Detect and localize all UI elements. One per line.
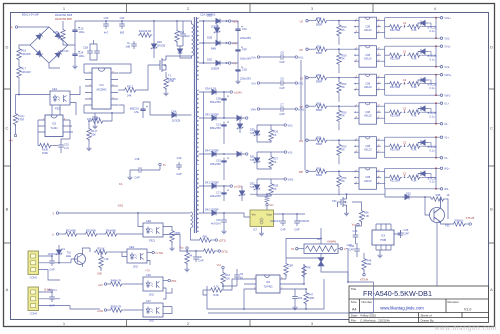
MOSFET source resistor (165, 72, 167, 76)
svg-text:CON3: CON3 (30, 276, 38, 280)
svg-text:683: 683 (120, 31, 125, 35)
winding tap link rail lower (203, 92, 205, 213)
svg-text:24D: 24D (97, 272, 102, 276)
svg-text:220u/25V: 220u/25V (240, 36, 251, 40)
svg-text:C:\Working\.. 220324b: C:\Working\.. 220324b (360, 319, 390, 323)
capacitor C32 4.7u (58, 142, 64, 150)
CON3 pin wires (39, 256, 67, 280)
resistor R19 0.25 (63, 21, 68, 45)
snubber resistor R13 (176, 21, 178, 29)
transformer primary winding (192, 24, 194, 56)
svg-text:PD1: PD1 (172, 279, 178, 283)
svg-text:R117: R117 (91, 129, 98, 133)
svg-text:C20: C20 (104, 16, 109, 20)
CE3 output network (163, 227, 172, 230)
svg-text:4.5u: 4.5u (134, 110, 140, 114)
svg-text:C1E: C1E (242, 68, 247, 72)
IC3 right pins (111, 73, 118, 105)
svg-text:CAP: CAP (198, 259, 204, 263)
svg-text:VU1+: VU1+ (444, 16, 451, 20)
svg-text:VU+: VU+ (251, 55, 257, 59)
capacitor C1B 560u/35V (221, 95, 228, 103)
diode D45 (234, 116, 244, 121)
svg-text:C9: C9 (280, 77, 284, 81)
svg-text:VV1+: VV1+ (444, 45, 451, 49)
svg-text:+GV: +GV (98, 283, 104, 287)
svg-text:180u/16V: 180u/16V (240, 56, 251, 60)
svg-text:R53/4.7K: R53/4.7K (111, 305, 122, 309)
svg-text:2N2: 2N2 (149, 319, 154, 323)
svg-text:C7: C7 (280, 103, 284, 107)
IC7 output wire (274, 213, 306, 215)
svg-text:150K: 150K (42, 151, 48, 155)
rectifier row1: diode D2C (213, 19, 223, 24)
connector CON3 (yellow) (28, 251, 39, 275)
svg-text:R12/34.1R: R12/34.1R (139, 29, 152, 33)
svg-text:TL431: TL431 (50, 126, 58, 130)
svg-text:A4: A4 (352, 308, 356, 312)
big loop wire (207, 279, 324, 309)
diode D32 (385, 189, 404, 197)
resistor R16 10K/2W (17, 47, 21, 61)
svg-text:(+)24V: (+)24V (234, 91, 242, 95)
resistor R12 (138, 33, 152, 37)
opto CE1 output wires (70, 86, 80, 115)
svg-text:+7V: +7V (232, 42, 237, 46)
svg-text:T64: T64 (332, 199, 337, 203)
svg-text:2N2: 2N2 (149, 293, 154, 297)
bridge rectifier D1A-D1D (30, 27, 68, 63)
svg-text:IC4: IC4 (381, 234, 386, 238)
svg-text:C: C (5, 126, 8, 131)
svg-text:4.3K: 4.3K (364, 214, 370, 218)
transformer secondary winding lower (197, 170, 199, 232)
bidirectional suppressor diode (320, 254, 322, 258)
svg-text:R10: R10 (225, 273, 230, 277)
svg-text:-7V: -7V (232, 62, 236, 66)
svg-text:4-May-2020: 4-May-2020 (360, 313, 376, 317)
svg-text:D4R: D4R (213, 293, 218, 297)
svg-text:IC5: IC5 (52, 122, 57, 126)
svg-text:KT5-M: KT5-M (360, 278, 368, 282)
svg-text:860C15: 860C15 (130, 107, 140, 111)
svg-text:U1+: U1+ (444, 102, 449, 106)
svg-text:T10: T10 (67, 251, 72, 255)
svg-text:TC(1): TC(1) (18, 114, 25, 118)
shunt regulator IC5 TL431 (45, 115, 63, 137)
IC3 top loop wire (84, 64, 131, 73)
resistor R56 4.3K (352, 202, 362, 209)
svg-text:CE3: CE3 (146, 219, 152, 223)
svg-text:D20C13: D20C13 (270, 219, 280, 223)
svg-text:Y2B: Y2B (250, 131, 255, 135)
resistor R117 20K (88, 121, 90, 127)
svg-text:C36: C36 (404, 228, 409, 232)
terminal Vcc above regulator (265, 194, 269, 203)
zener D26 2K3CB (153, 21, 155, 41)
svg-text:C42: C42 (349, 244, 354, 248)
svg-text:203DR: 203DR (211, 67, 219, 71)
svg-text:CAP: CAP (279, 60, 285, 64)
optocoupler IC6 TLP452 (256, 275, 280, 293)
zener D48 (239, 188, 245, 198)
svg-text:(+)15V: (+)15V (234, 185, 242, 189)
voltage regulator IC7 (yellow) (250, 210, 274, 227)
svg-text:2K: 2K (273, 133, 276, 137)
brake resistor top tap wire (286, 239, 321, 259)
svg-text:C1b: C1b (242, 27, 247, 31)
capacitor C42 (354, 246, 360, 254)
capacitor C30b (296, 213, 298, 215)
svg-text:E1E: E1E (66, 254, 71, 258)
resistor R6 4.3K (100, 251, 102, 253)
svg-text:KW1: KW1 (299, 107, 305, 111)
svg-text:56R: 56R (367, 262, 372, 266)
svg-text:B: B (6, 207, 9, 212)
T64 source to ground (346, 207, 348, 211)
svg-text:R112: R112 (127, 85, 134, 89)
svg-text:CAP: CAP (279, 112, 285, 116)
svg-text:4n7: 4n7 (104, 31, 109, 35)
svg-text:VV1-: VV1- (288, 151, 294, 155)
svg-text:10K/2W: 10K/2W (21, 52, 31, 56)
svg-text:CE1: CE1 (52, 87, 58, 91)
resistor R5 1K (83, 248, 91, 252)
capacitor C14 100u (72, 51, 79, 59)
svg-text:WP: WP (299, 170, 303, 174)
svg-text:R5/1K: R5/1K (97, 247, 104, 251)
frame zone dividers bottom (127, 320, 251, 327)
svg-text:100u: 100u (79, 54, 85, 58)
svg-text:Vcc: Vcc (269, 203, 274, 207)
wire R17 down to opto CE1 input (19, 79, 50, 94)
svg-text:R24/40K: R24/40K (106, 229, 116, 233)
svg-text:Title: Title (351, 287, 357, 291)
svg-text:R13: R13 (179, 30, 184, 34)
capacitor C36 (394, 230, 401, 234)
svg-text:470R: 470R (18, 118, 24, 122)
TR3 emitter wire down to title block (436, 222, 438, 286)
svg-text:2K3CB: 2K3CB (172, 119, 180, 123)
IC6 pins (250, 279, 286, 289)
svg-text:VV+: VV+ (251, 81, 256, 85)
svg-text:C07: C07 (146, 299, 151, 303)
svg-text:100u: 100u (79, 30, 85, 34)
svg-text:2K: 2K (273, 160, 276, 164)
title block (349, 286, 489, 323)
svg-text:B4B: B4B (211, 47, 216, 51)
svg-text:220u/25V: 220u/25V (240, 76, 251, 80)
svg-text:R22/40K: R22/40K (66, 229, 76, 233)
IC5 loop wires (38, 120, 73, 146)
svg-text:103: 103 (298, 296, 303, 300)
svg-text:D20C30: D20C30 (300, 219, 310, 223)
diode D46 (234, 152, 244, 157)
terminal +7V (14, 134, 16, 136)
svg-text:R10K/3W 5W5: R10K/3W 5W5 (55, 13, 73, 17)
link wire C06-C07 (163, 288, 172, 299)
svg-text:VW1-: VW1- (444, 94, 451, 98)
frame zone dividers top (127, 4, 374, 13)
transformer secondary winding upper (197, 18, 199, 80)
svg-text:KT5-25: KT5-25 (466, 216, 475, 220)
common emitter bus (250, 193, 385, 195)
capacitor C13 680u/35V (221, 121, 228, 129)
capacitor 103 (286, 289, 295, 294)
svg-text:VW1-: VW1- (288, 178, 295, 182)
svg-text:UP: UP (299, 48, 303, 52)
svg-text:R113: R113 (94, 116, 101, 120)
svg-text:Date:: Date: (351, 313, 358, 317)
capacitors above IC3 (87, 48, 93, 56)
svg-text:R35: R35 (436, 193, 441, 197)
gate driver row 5: opto C07 A3120 (306, 136, 443, 165)
svg-text:47K: 47K (306, 266, 311, 270)
snubber capacitor C25 2n2 (182, 21, 184, 31)
svg-text:P521: P521 (149, 239, 156, 243)
svg-text:B: B (490, 207, 493, 212)
svg-text:C18: C18 (135, 157, 140, 161)
svg-text:IC3: IC3 (99, 83, 104, 87)
aux winding output resistor R41 (191, 228, 199, 240)
svg-text:V1.0: V1.0 (464, 308, 471, 312)
primary bottom wire to MOSFET drain (190, 56, 192, 58)
svg-text:www.likantag.jinde.com: www.likantag.jinde.com (380, 306, 424, 311)
svg-text:File:: File: (351, 319, 357, 323)
svg-text:10K/2W: 10K/2W (21, 70, 31, 74)
svg-text:220u/25V: 220u/25V (210, 194, 221, 198)
svg-text:D3A 9.1B: D3A 9.1B (205, 87, 216, 91)
svg-text:C06: C06 (146, 273, 151, 277)
transformer core (194, 17, 196, 233)
svg-text:D: D (5, 45, 8, 50)
svg-text:D: D (490, 45, 493, 50)
svg-text:D2B: D2B (207, 36, 212, 40)
wire loop to right rail (346, 249, 348, 282)
svg-text:W1+: W1+ (444, 167, 450, 171)
TR3 emitter network R34 1K (441, 222, 453, 224)
resistor R47 100K (305, 288, 307, 290)
resistor R52 22R (285, 274, 287, 279)
svg-text:VU1-: VU1- (288, 124, 294, 128)
CE4 output terminal GT4U (147, 252, 152, 254)
IC4 top pins (376, 224, 391, 230)
svg-text:CAP: CAP (134, 176, 140, 180)
svg-text:C: C (490, 126, 493, 131)
svg-text:R49/4.7K: R49/4.7K (111, 279, 122, 283)
MOSFET T1 K2225 (148, 56, 192, 72)
svg-text:KU1: KU1 (299, 55, 305, 59)
transformer aux winding (191, 212, 193, 228)
winding tap link rail upper (203, 21, 205, 63)
IC3 PWM controller MC3842 (92, 68, 111, 109)
IC3 left pins (85, 73, 92, 105)
svg-text:Sheet of: Sheet of (421, 313, 432, 317)
svg-text:F3P: F3P (242, 48, 247, 52)
vertical bus wires (301, 60, 305, 170)
svg-text:Number: Number (362, 300, 373, 304)
svg-text:V1+: V1+ (444, 136, 449, 140)
IC7 ground pin (261, 227, 263, 232)
CE3 input wire upper (138, 213, 143, 227)
svg-text:R41: R41 (203, 235, 208, 239)
resistor R17 10K/2W (17, 65, 21, 79)
frame zone dividers right (489, 89, 495, 243)
svg-text:A: A (344, 247, 346, 251)
svg-text:C8: C8 (198, 255, 202, 259)
svg-text:CON4: CON4 (30, 312, 38, 316)
capacitor C9 (236, 280, 238, 286)
capacitor C17 220u/25V (221, 189, 228, 197)
wire input to bridge top (18, 26, 49, 28)
capacitor C13b (282, 213, 284, 215)
svg-text:+7V: +7V (8, 139, 13, 143)
svg-text:KA: KA (119, 182, 123, 186)
svg-text:V2: V2 (300, 76, 304, 80)
svg-text:-(DT1): -(DT1) (219, 239, 227, 243)
svg-text:680u/35V: 680u/35V (210, 126, 221, 130)
diode D1 (56, 247, 62, 257)
svg-text:2N2: 2N2 (133, 265, 138, 269)
svg-text:B2AL1-34-10F: B2AL1-34-10F (22, 13, 39, 17)
svg-text:UX64W: UX64W (327, 240, 336, 244)
svg-text:O-T4U: O-T4U (156, 251, 164, 255)
svg-text:R34/1K: R34/1K (455, 219, 464, 223)
svg-text:0.5R: 0.5R (168, 79, 174, 83)
wire bridge left to R16 (19, 45, 30, 47)
svg-text:91K: 91K (225, 277, 230, 281)
svg-text:1nB: 1nB (125, 45, 130, 49)
capacitor C30 1nB (131, 41, 137, 49)
resistor R48 4.7k (203, 289, 209, 291)
svg-text:Drawn By:: Drawn By: (421, 319, 435, 323)
svg-text:20K: 20K (91, 133, 96, 137)
svg-text:Vin: Vin (252, 213, 256, 217)
transformer secondary winding middle (197, 90, 199, 165)
MOSFET gate wire to R112 (137, 65, 148, 90)
resistor TC1 470R (16, 95, 20, 113)
svg-text:CAP: CAP (280, 228, 286, 232)
svg-text:D2D: D2D (207, 58, 212, 62)
svg-text:9K: 9K (189, 254, 192, 258)
svg-text:CAP: CAP (294, 228, 300, 232)
terminal +21V (228, 20, 230, 22)
wire bridge right to HV node (49, 45, 75, 68)
svg-text:2K3CB: 2K3CB (157, 44, 165, 48)
svg-text:CAP: CAP (404, 232, 410, 236)
svg-text:Vcc: Vcc (217, 263, 222, 267)
svg-text:P1: P1 (291, 247, 295, 251)
svg-text:U2: U2 (300, 19, 304, 23)
svg-text:C32: C32 (64, 143, 69, 147)
svg-text:22R: 22R (288, 264, 293, 268)
resistor R113 (90, 119, 104, 123)
svg-text:D1: D1 (62, 247, 66, 251)
wire (18, 61, 20, 65)
svg-text:R47: R47 (308, 293, 313, 297)
svg-text:-GD1: -GD1 (117, 204, 124, 208)
resistor R43 (202, 249, 216, 253)
capacitor C1D 180u/16V (235, 46, 242, 54)
svg-text:4n7/1KV: 4n7/1KV (211, 221, 221, 225)
svg-text:100K: 100K (308, 296, 314, 300)
svg-text:Revision: Revision (448, 300, 460, 304)
svg-text:VW+: VW+ (251, 107, 257, 111)
gate driver row 4: opto C06 A3120 (306, 102, 443, 131)
svg-text:U1-: U1- (444, 122, 448, 126)
svg-text:+GW: +GW (97, 309, 104, 313)
capacitor C1C 220u/25V (235, 26, 242, 34)
svg-text:Y2B: Y2B (250, 185, 255, 189)
svg-text:IC6: IC6 (266, 280, 271, 284)
capacitor C1E 220u/25V (235, 66, 242, 74)
svg-text:TLP452: TLP452 (263, 285, 273, 289)
svg-text:4.7u: 4.7u (64, 146, 70, 150)
IC5 pins (38, 120, 70, 132)
svg-text:R10K/3W 68/5: R10K/3W 68/5 (55, 17, 72, 21)
resistor R35 1K (425, 197, 431, 199)
ground under source resistor (163, 91, 168, 96)
svg-text:180u/35V: 180u/35V (210, 162, 221, 166)
svg-text:2n2: 2n2 (185, 34, 190, 38)
IC4 Y50B (372, 230, 394, 245)
resistor R10 91K (221, 271, 225, 285)
ground under C14 (72, 64, 77, 69)
svg-text:Vout: Vout (266, 213, 272, 217)
svg-text:+7V: +7V (145, 269, 150, 273)
resistor R112 (123, 88, 137, 92)
CON4 pin wires (39, 292, 101, 309)
svg-text:R46: R46 (367, 259, 372, 263)
svg-text:Y50B: Y50B (380, 238, 387, 242)
svg-text:CAP: CAP (49, 304, 55, 308)
svg-text:IC7: IC7 (253, 228, 258, 232)
svg-text:C1B: C1B (83, 46, 88, 50)
svg-text:CAP: CAP (279, 86, 285, 90)
terminal KT5-M (363, 274, 365, 276)
resistor R45 47K (286, 264, 304, 284)
gate driver row 2: opto C04 A3120 (306, 45, 443, 74)
snubber diode D2A (178, 46, 183, 56)
transistor TR3 (430, 208, 445, 223)
zener D47 (237, 121, 243, 131)
svg-text:R56: R56 (364, 211, 369, 215)
frame zone dividers left (4, 89, 11, 243)
capacitor C8 CAP (193, 254, 199, 262)
svg-text:D(T)L: D(T)L (222, 250, 229, 254)
svg-text:www.diangon.com: www.diangon.com (434, 325, 497, 332)
resistor R46 56R (363, 253, 365, 257)
svg-text:VU1-: VU1- (444, 37, 450, 41)
svg-text:C9: C9 (240, 272, 244, 276)
connector CON4 (yellow) (28, 287, 39, 311)
capacitor under IC3 (92, 114, 98, 122)
svg-text:0.25: 0.25 (53, 30, 59, 34)
svg-text:CAP: CAP (349, 248, 355, 252)
svg-text:VV1-: VV1- (444, 65, 450, 69)
svg-text:R: R (11, 26, 13, 30)
svg-text:2K: 2K (273, 187, 276, 191)
gate driver row 1: opto C08 A3120, R51 560R, R50 2K, output R 56R/4.3K to VU1 (306, 16, 443, 45)
svg-text:V1-: V1- (444, 156, 448, 160)
svg-text:Vcc: Vcc (179, 246, 184, 250)
capacitor C15 180u/35V (221, 157, 228, 165)
svg-text:CE4: CE4 (129, 245, 135, 249)
svg-text:P521: P521 (55, 107, 62, 111)
svg-text:W1-: W1- (444, 187, 449, 191)
HV+ rail to transformer primary (75, 21, 192, 24)
gate driver row 3: opto C05 A3120 (306, 73, 443, 102)
